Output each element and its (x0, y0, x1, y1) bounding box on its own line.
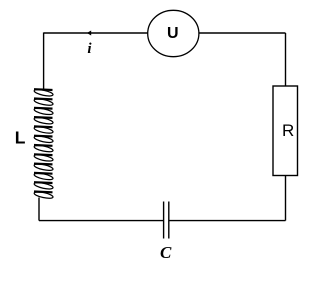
svg-text:L: L (15, 128, 26, 148)
wire right vertical upper (285, 33, 287, 86)
svg-text:C: C (160, 243, 172, 262)
wire top right (meter to corner) (199, 32, 286, 34)
wire top horizontal (corner to meter) (44, 32, 148, 34)
wire bottom left (capacitor to corner) (39, 220, 164, 222)
meter U1 circle (148, 10, 199, 56)
resistor R1 body (273, 86, 298, 176)
capacitor C1 plates (164, 202, 169, 239)
wire left vertical lower (corner up to coil) (38, 198, 40, 221)
wire right vertical lower (285, 176, 287, 221)
svg-text:U: U (167, 25, 179, 42)
wire bottom right (corner to capacitor) (169, 220, 286, 222)
svg-text:R: R (282, 121, 294, 140)
wire left vertical upper (corner down to coil) (43, 32, 45, 89)
current arrow (87, 31, 91, 36)
inductor L1 coil (34, 88, 54, 199)
